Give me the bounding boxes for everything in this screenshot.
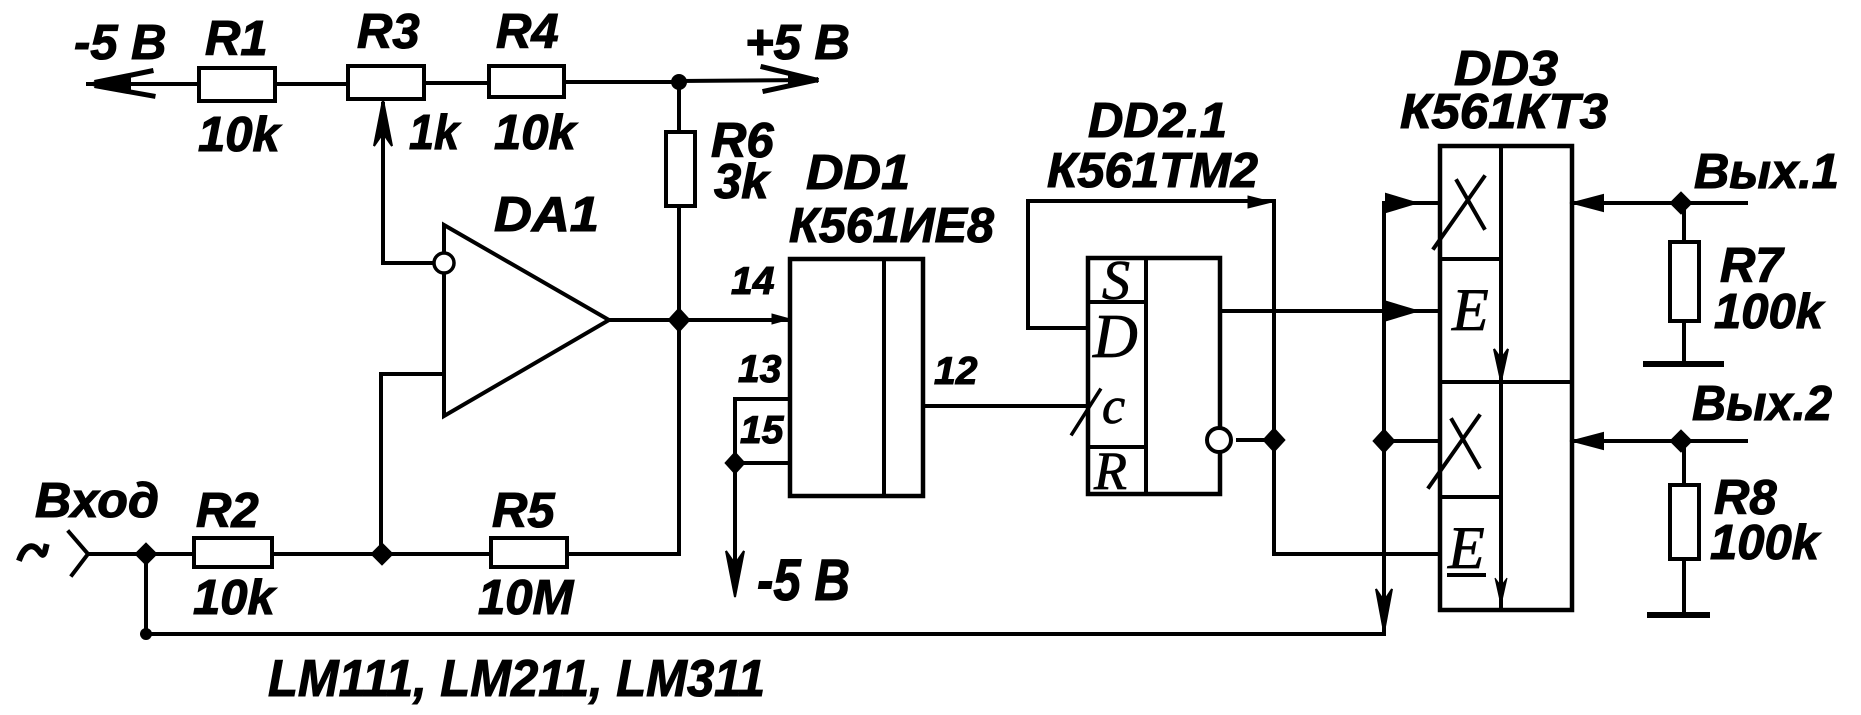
svg-text:3k: 3k [714,155,771,209]
resistor R7 [1670,242,1699,321]
svg-text:Вход: Вход [35,474,159,528]
svg-text:E: E [1447,515,1485,581]
svg-text:К561ТМ2: К561ТМ2 [1047,144,1258,198]
wire pin13 stub [735,399,790,463]
svg-text:DA1: DA1 [494,188,599,242]
clock slash [1072,390,1100,434]
svg-text:10k: 10k [193,571,278,625]
wire to R7 [1682,203,1686,242]
svg-text:R1: R1 [205,12,268,66]
ground 1 [1646,361,1721,367]
wire R1-R3 [275,82,348,86]
wire pin15 [735,461,790,465]
wire Q output to switch E [1220,309,1440,313]
Q-bar inverter circle [1207,428,1231,452]
svg-text:10k: 10k [198,108,283,162]
node output junction [668,308,690,332]
wire Q-bar to feedback line [1238,438,1274,442]
wire bus to X2 [1384,439,1440,443]
ground 2 [1650,612,1707,618]
resistor R6 [666,132,695,206]
wire to -5V arrow [733,463,737,586]
pin X2 label [1452,420,1479,467]
svg-text:Вых.2: Вых.2 [1692,377,1832,431]
wire R6 to output node [677,206,681,320]
wire Q-bar feedback to D [1028,201,1440,554]
pin X1 label [1457,181,1484,228]
svg-text:10M: 10M [478,571,575,625]
svg-text:1k: 1k [409,106,462,160]
svg-text:DD1: DD1 [806,146,910,200]
wire pin14 entry arrow [772,314,790,324]
wire R7 to ground [1682,321,1686,364]
switch arrow 2 inside DD3 [1495,578,1507,605]
wire to R8 [1682,441,1686,485]
node output 1 junction [1670,192,1692,214]
svg-text:R: R [1093,441,1127,501]
resistor R8 [1670,485,1699,559]
svg-text:12: 12 [934,350,978,393]
node output 2 junction [1670,430,1692,452]
svg-text:LM111, LM211, LM311: LM111, LM211, LM311 [268,650,765,708]
svg-text:-5 В: -5 В [74,16,167,70]
svg-text:R5: R5 [492,484,555,538]
node pin13/15 junction [725,452,745,474]
svg-text:E: E [1451,277,1489,343]
svg-text:Вых.1: Вых.1 [1694,145,1839,199]
wire input to R2 [88,552,194,556]
svg-text:DD2.1: DD2.1 [1088,94,1227,148]
wire DA1 output [609,318,790,322]
svg-text:+5 В: +5 В [745,16,850,70]
wire output node down to R5 [567,320,679,554]
wire +5V arrow [679,80,812,81]
wire R3 wiper [383,104,433,263]
wire noninverting input [381,374,444,554]
wire R3-R4 [424,81,489,85]
AC tilde symbol [20,546,46,558]
svg-text:К561КТ3: К561КТ3 [1400,85,1608,139]
wire bus to X1 [1384,201,1440,205]
svg-text:R2: R2 [196,484,259,538]
wire output 2 [1572,439,1746,443]
resistor R2 [194,538,272,567]
wire +5V to R6 [677,82,681,132]
node junction +5V rail [671,74,687,90]
wire signal bus vertical [1382,203,1386,634]
wire R8 to ground [1682,559,1686,615]
node comparator input junction [371,543,393,565]
node input junction [135,543,157,565]
node Q-bar junction [1263,428,1285,452]
wire bottom bus [146,632,1384,636]
counter DD1 [790,259,923,496]
resistor R3 (trimmer) [348,66,424,99]
svg-text:100k: 100k [1710,516,1822,570]
svg-text:R4: R4 [496,5,559,59]
resistor R4 [489,66,564,97]
bus arrow at bottom [1376,589,1392,632]
svg-text:14: 14 [731,260,775,303]
svg-text:D: D [1092,303,1138,371]
resistor R5 [491,538,567,567]
wire R2 to R5 [272,552,491,556]
wire inverting input [383,261,432,265]
wire R4 to +5V node [564,80,679,84]
input connector [69,532,88,575]
wire -5V rail arrow [88,82,199,86]
resistor R1 [199,68,275,101]
svg-text:К561ИЕ8: К561ИЕ8 [789,199,995,253]
svg-text:R3: R3 [357,5,420,59]
wire output 1 [1572,201,1746,205]
node feedback corner dot [1248,196,1272,208]
node bus to X2 junction [1373,429,1395,453]
inverting input circle [434,253,454,273]
svg-text:c: c [1102,378,1125,435]
wire pin12 to DD2 clock [923,404,1088,408]
wire input down to bottom bus [144,554,148,634]
svg-text:-5 В: -5 В [757,548,850,613]
op-amp DA1 [444,225,609,416]
switch arrow inside DD3 [1494,349,1508,381]
node bottom corner [140,628,152,640]
svg-text:10k: 10k [494,106,579,160]
svg-text:100k: 100k [1714,285,1826,339]
svg-text:13: 13 [738,348,782,391]
svg-text:15: 15 [740,409,785,452]
